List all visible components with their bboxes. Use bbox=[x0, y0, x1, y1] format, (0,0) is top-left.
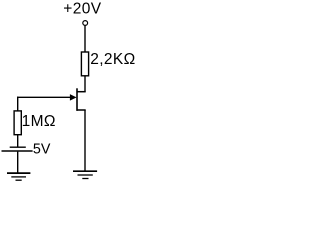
wire gate bbox=[17, 96, 71, 98]
ground left bbox=[7, 173, 30, 180]
terminal +20V bbox=[83, 21, 88, 26]
ground right bbox=[73, 171, 97, 178]
transistor Q1 channel bar bbox=[76, 88, 78, 111]
svg-text:1MΩ: 1MΩ bbox=[22, 113, 56, 130]
battery V1 negative plate (short) bbox=[10, 146, 26, 148]
transistor Q1 source lead bbox=[77, 109, 86, 111]
svg-text:5V: 5V bbox=[33, 141, 51, 157]
wire left vertical gate to R2 bbox=[17, 97, 19, 111]
transistor Q1 gate arrow bbox=[70, 95, 76, 101]
wire source to right ground bbox=[84, 110, 86, 171]
resistor R1 body bbox=[81, 52, 88, 76]
svg-text:2,2KΩ: 2,2KΩ bbox=[90, 51, 135, 68]
wire R2 to battery bbox=[17, 135, 19, 148]
wire R1 to drain bbox=[84, 76, 86, 92]
wire terminal to R1 bbox=[84, 26, 86, 52]
battery V1 positive plate (long) bbox=[2, 150, 33, 152]
svg-text:+20V: +20V bbox=[63, 1, 101, 18]
wire battery to left ground bbox=[17, 152, 19, 174]
resistor R2 body bbox=[14, 111, 21, 135]
transistor Q1 drain lead bbox=[77, 91, 86, 93]
